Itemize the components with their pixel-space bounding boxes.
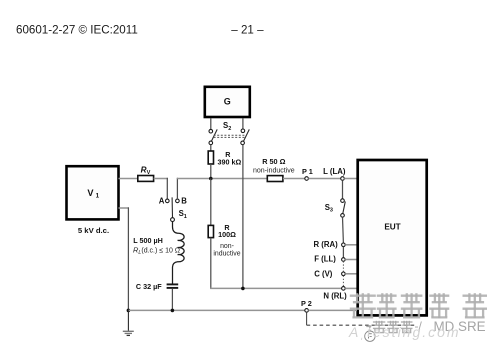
switch S2 left lever — [211, 129, 217, 141]
terminal N(RL) contact — [342, 287, 346, 291]
wire R(RA) into EUT — [345, 244, 357, 246]
label R 50 non-inductive — [253, 157, 295, 174]
wire capacitor to bottom line — [171, 289, 173, 311]
svg-text:V: V — [87, 188, 94, 198]
svg-text:P 2: P 2 — [301, 299, 312, 308]
svg-text:A: A — [159, 197, 165, 206]
watermark small characters line — [373, 321, 413, 333]
svg-text:1: 1 — [96, 193, 100, 200]
label S1 — [179, 209, 187, 220]
label R 390 kOhm — [218, 150, 242, 167]
wire L(LA) into EUT — [344, 178, 357, 180]
dotted link C(V) to N(RL) — [342, 276, 344, 287]
svg-text:L 500 µH: L 500 µH — [133, 236, 163, 245]
functional earth F circle — [365, 331, 375, 341]
svg-text:EUT: EUT — [384, 222, 400, 231]
svg-text:2: 2 — [228, 126, 231, 132]
dashed drop to F circle — [369, 325, 371, 331]
wire V1 lower to ground drop — [119, 207, 130, 209]
junction dot S2 right / return line — [241, 287, 245, 291]
svg-text:– 21 –: – 21 – — [231, 24, 264, 37]
wire G right to S2 — [242, 118, 244, 129]
wire P2 to EUT — [308, 309, 357, 311]
dashed functional earth line from P2 — [306, 312, 308, 325]
svg-text:C 32 µF: C 32 µF — [136, 282, 162, 291]
resistor R50 — [267, 176, 283, 182]
label S3 — [325, 203, 333, 214]
terminal R(RA) contact — [342, 243, 346, 247]
point P2 contact — [305, 309, 309, 313]
junction dot R390k / main line — [209, 177, 213, 181]
earth ground symbol — [123, 331, 134, 335]
svg-text:R 50 Ω: R 50 Ω — [262, 157, 285, 166]
capacitor C bottom plate — [167, 287, 179, 289]
svg-text:60601-2-27 © IEC:2011: 60601-2-27 © IEC:2011 — [16, 24, 138, 37]
wire L(LA) down to S3 — [342, 180, 344, 199]
generator G box — [205, 87, 250, 117]
node B contact — [176, 199, 180, 203]
resistor RV — [138, 176, 154, 182]
wire P1 to L(LA) terminal — [308, 178, 340, 180]
switch S2 left upper contact — [209, 129, 213, 133]
wire RV to node A — [154, 178, 168, 180]
terminal F(LL) contact — [342, 258, 346, 262]
label RL(d.c.) limit — [133, 246, 180, 257]
svg-text:R (RA): R (RA) — [314, 240, 339, 249]
switch S1 pole contact — [171, 218, 175, 222]
bottom line to P2 — [128, 309, 304, 311]
svg-text:390 kΩ: 390 kΩ — [218, 158, 242, 167]
svg-text:non-: non- — [220, 243, 234, 250]
watermark dash left — [366, 325, 371, 327]
svg-text:1: 1 — [184, 214, 187, 220]
wire F(LL) into EUT — [345, 259, 357, 261]
svg-text:L (LA): L (LA) — [323, 167, 346, 176]
switch S3 lower contact — [341, 214, 345, 218]
junction dot capacitor / bottom line — [171, 309, 175, 313]
wire S2 left to R390k — [210, 145, 212, 152]
svg-text:3: 3 — [330, 208, 333, 214]
wire R390k to main line junction — [210, 164, 212, 179]
terminal C(V) contact — [342, 272, 346, 276]
svg-text:non-inductive: non-inductive — [253, 168, 295, 175]
wire S3 to R(RA) — [342, 217, 345, 243]
resistor R 100 — [208, 225, 213, 237]
switch S1 lever — [171, 197, 173, 217]
svg-text:P 1: P 1 — [302, 167, 313, 176]
switch S2 left lower contact — [209, 141, 213, 145]
switch S2 right upper contact — [241, 129, 245, 133]
switch S3 upper contact — [341, 199, 345, 203]
svg-text:100Ω: 100Ω — [218, 230, 236, 239]
S2 mechanical link dashed lower — [214, 136, 246, 138]
EUT box — [358, 160, 427, 315]
svg-text:F (LL): F (LL) — [314, 255, 336, 264]
wire R50 to P1 — [283, 178, 305, 180]
svg-text:G: G — [224, 97, 231, 107]
dotted link F(LL) to C(V) — [342, 261, 344, 272]
svg-text:C (V): C (V) — [314, 269, 333, 278]
wire node B up to main line — [176, 178, 178, 199]
svg-text:(d.c.) ≤ 10 Ω: (d.c.) ≤ 10 Ω — [141, 248, 180, 255]
node A contact — [166, 199, 170, 203]
point P1 contact — [305, 177, 309, 181]
label RV — [141, 166, 151, 176]
wire R100 to lower return line — [210, 238, 212, 289]
S2 mechanical link dashed upper — [214, 134, 246, 136]
wire N(RL) into EUT — [345, 287, 357, 289]
svg-text:Aˌtesting.com: Aˌtesting.com — [348, 324, 461, 340]
wire R(RA) to F(LL) — [342, 247, 344, 258]
wire earth stem — [127, 310, 129, 331]
svg-text:inductive: inductive — [213, 250, 240, 257]
junction dot ground drop / bottom line — [127, 309, 131, 313]
switch S3 lever — [343, 202, 346, 214]
inductor L coil — [173, 222, 185, 284]
label S2 — [223, 121, 231, 132]
resistor R 390k — [208, 151, 213, 164]
voltage source V1 box — [67, 166, 119, 219]
switch S2 right lever — [243, 129, 249, 141]
svg-text:B: B — [181, 197, 187, 206]
svg-text:N (RL): N (RL) — [323, 291, 347, 300]
terminal L(LA) contact — [341, 177, 345, 181]
switch S2 right lower contact — [241, 141, 245, 145]
wire junction down to R100 — [210, 179, 212, 226]
svg-text:V: V — [147, 170, 151, 176]
wire S2 right down to lower line — [242, 145, 244, 289]
watermark big characters — [350, 293, 487, 318]
svg-text:5 kV d.c.: 5 kV d.c. — [78, 226, 109, 235]
wire V1 to RV — [119, 178, 139, 180]
capacitor C top plate — [167, 283, 179, 285]
wire C(V) into EUT — [345, 273, 357, 275]
label R 100 non-inductive — [213, 223, 240, 257]
wire G left to S2 — [210, 118, 212, 130]
